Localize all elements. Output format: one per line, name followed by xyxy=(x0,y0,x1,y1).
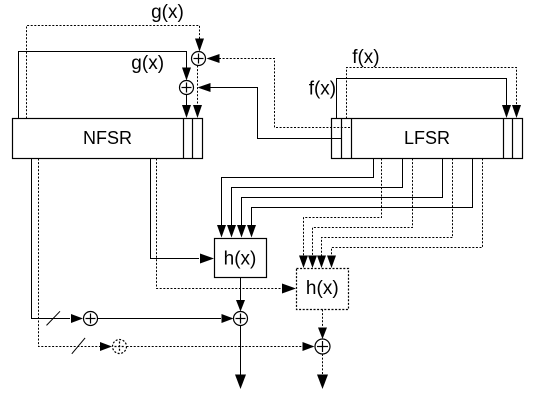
arrowhead into xor B4 from top xyxy=(318,328,327,340)
arrowhead into LFSR cell2 from f(x) dotted xyxy=(512,105,521,118)
arrowhead dotted tap1 xyxy=(299,256,308,269)
svg-text:f(x): f(x) xyxy=(352,47,379,68)
wire: dotted g(x) feedback loop (top) xyxy=(27,26,200,119)
arrowhead into h(x) left xyxy=(200,254,214,264)
wire: LFSR solid tap 3 to h(x) xyxy=(242,159,443,228)
arrowhead tap1 into h(x) xyxy=(217,225,226,238)
arrowhead dotted keystream output xyxy=(317,375,328,390)
arrowhead into top xor X1 from g(x) dotted xyxy=(195,39,204,52)
wire: dotted from LFSR bit0 to xor X1 xyxy=(219,59,351,128)
svg-text:h(x): h(x) xyxy=(224,248,257,269)
arrowhead into xor B1 xyxy=(71,314,83,323)
arrowhead into xor B2 from left xyxy=(222,314,234,323)
wire: LFSR dotted tap 1 to dotted h(x) xyxy=(304,159,382,258)
svg-text:NFSR: NFSR xyxy=(83,128,132,148)
arrowhead into xor X2 from g(x) solid xyxy=(182,68,191,81)
arrowhead dotted tap4 xyxy=(327,256,336,269)
wire: solid NFSR bit0 down to keystream xor B1 xyxy=(32,159,71,319)
wire: dotted keystream output down xyxy=(322,354,324,375)
arrowhead into LFSR cell1 from f(x) solid xyxy=(502,105,511,118)
register LFSR box xyxy=(332,119,523,159)
svg-text:f(x): f(x) xyxy=(309,78,336,99)
wire: dotted f(x) feedback loop xyxy=(347,68,517,119)
wire: solid g(x) feedback loop xyxy=(19,52,187,119)
wire: dotted from xor B3 to xor B4 xyxy=(127,346,303,348)
arrowhead into xor X2 from right xyxy=(198,83,211,92)
wire: LFSR solid tap 2 to h(x) xyxy=(232,159,403,228)
arrowhead dotted tap2 xyxy=(308,256,317,269)
wire: solid keystream output down xyxy=(240,326,242,376)
wire: LFSR solid tap 4 to h(x) xyxy=(252,159,473,228)
wire: h(x) output down to xor B2 xyxy=(240,278,242,301)
arrowhead into dotted h(x) left xyxy=(282,284,296,294)
wire: solid from xor B1 to xor B2 xyxy=(98,318,222,320)
wire: LFSR dotted tap 3 to dotted h(x) xyxy=(322,159,453,258)
arrowhead into xor B3 xyxy=(100,342,112,351)
arrowhead keystream output xyxy=(235,375,246,390)
wire: dotted output of X1 down into NFSR cell2 xyxy=(197,66,199,108)
xor gate B1 (keystream, solid) xyxy=(84,312,98,326)
wire: LFSR dotted tap 2 to dotted h(x) xyxy=(313,159,413,258)
wire: solid from LFSR bit0 to xor X2 xyxy=(210,88,342,139)
xor gate X1 (top, dotted path into NFSR cell2) xyxy=(192,52,206,66)
wire: solid NFSR tap to h(x) xyxy=(151,159,200,259)
arrowhead tap4 into h(x) xyxy=(247,225,256,238)
arrowhead into NFSR cell1 xyxy=(182,105,191,118)
wire: solid f(x) feedback loop xyxy=(337,79,507,119)
arrowhead into NFSR cell2 xyxy=(193,105,202,118)
wire: dotted h(x) output down to xor B4 xyxy=(322,310,324,329)
arrowhead into xor X1 from right xyxy=(207,54,220,63)
register NFSR box xyxy=(13,119,203,159)
svg-text:h(x): h(x) xyxy=(306,278,339,299)
xor gate X2 (solid path into NFSR cell1) xyxy=(180,81,194,95)
arrowhead tap2 into h(x) xyxy=(227,225,236,238)
filter h(x) box (solid) xyxy=(215,239,267,278)
filter h(x) box (dotted) xyxy=(297,269,349,310)
xor gate B4 (dotted keystream output) xyxy=(315,339,330,354)
slash mark on dotted output wire xyxy=(72,338,85,354)
xor gate B2 (keystream output, solid) xyxy=(234,312,248,326)
slash mark on solid output wire xyxy=(47,311,61,325)
arrowhead into xor B2 xyxy=(236,300,245,312)
svg-text:LFSR: LFSR xyxy=(404,128,450,148)
arrowhead tap3 into h(x) xyxy=(237,225,246,238)
svg-text:g(x): g(x) xyxy=(131,53,164,74)
wire: LFSR solid tap 1 to h(x) xyxy=(222,159,374,228)
wire: solid output of X2 down into NFSR cell1 xyxy=(186,95,188,108)
arrowhead into xor B4 from left xyxy=(303,342,315,351)
xor gate B3 (dotted circle, dotted plus) xyxy=(113,340,127,354)
arrowhead dotted tap3 xyxy=(317,256,326,269)
wire: dotted NFSR tap to dotted h(x) xyxy=(157,159,282,289)
wire: dotted NFSR bit0 down to dotted keystream xor B3 xyxy=(39,159,101,347)
svg-text:g(x): g(x) xyxy=(151,2,184,23)
wire: LFSR dotted tap 4 to dotted h(x) xyxy=(332,159,483,258)
